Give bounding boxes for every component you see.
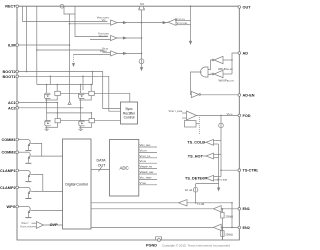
junction (57.4,112.9) [57,112,59,114]
svg-text:AC1: AC1 [8,101,16,105]
svg-text:BOOT2: BOOT2 [3,70,16,74]
pin BOOT2 [16,70,19,73]
ground Q3 [45,127,49,130]
svg-text:TS_COLD: TS_COLD [187,140,205,144]
current source I1 [139,59,144,64]
svg-text:TS_DETECT: TS_DETECT [185,176,208,180]
buffer EN1 [213,206,221,212]
transistor COMM1 [25,140,32,152]
wire comp3 stub [74,54,111,56]
svg-text:ILIM: ILIM [8,43,16,47]
current sense CS1 [60,4,64,8]
svg-text:10 uA: 10 uA [185,188,192,192]
junction (232,60) [231,59,233,61]
wire comp2 stub [90,38,111,40]
transistor Q2 bridge [79,87,95,100]
wire gate chain [141,10,143,59]
junction (232,227.4) [231,227,233,229]
wire comp2 out [117,37,141,39]
wire ILIM to comp3 [37,50,111,52]
svg-text:200kΩ: 200kΩ [225,214,233,218]
resistor FOD fb [185,121,197,128]
pin ILIM [16,44,19,47]
svg-text:DATA: DATA [96,159,106,163]
op-amp FOD [187,111,197,120]
junction (91.4,112.9) [91,112,93,114]
wire sense loop [64,6,75,14]
node arrow [68,102,71,105]
pin PGND [158,239,161,242]
svg-text:FOD: FOD [243,114,251,118]
comparator TS_COLD [206,139,214,145]
wire ILIM [17,44,70,46]
resistor EN2 [221,227,223,230]
pin COMM1 [16,138,19,141]
wire FOD down [220,115,222,123]
wire dig out1 [91,202,232,204]
junction (26.5,71.5) [26,71,28,73]
pin CLAMP2 [16,186,19,189]
wire comm1 gate [32,143,42,156]
comparator TS_DETECT [206,175,214,181]
pin CLAMP1 [16,169,19,172]
svg-text:EN2: EN2 [243,226,250,230]
transistor COMM2 [25,152,32,164]
svg-text:Copyright © 2015, Texas Instru: Copyright © 2015, Texas Instruments Inco… [162,243,230,247]
svg-text:CLAMP1: CLAMP1 [0,169,16,173]
svg-text:COMM2: COMM2 [1,151,15,155]
svg-text:M1: M1 [140,2,144,6]
pin circles [16,5,241,241]
svg-text:CLAMP2: CLAMP2 [0,186,16,190]
pin EN2 [238,226,241,229]
wire bridge top [37,84,93,86]
wire loop to comp2 [75,14,108,37]
junction (80.5,84.5) [80,84,82,86]
pin TS-CTRL [238,169,241,172]
junction (80.5,107.8) [80,107,82,109]
junction (83,76.3) [82,76,84,78]
transistor Q1 bridge [45,87,61,100]
svg-text:OUT: OUT [98,164,106,168]
comparator TS_HOT [206,153,214,159]
pin AD-EN [238,94,241,97]
svg-text:T-LIM: T-LIM [197,202,205,206]
buffer EN2 [213,224,221,230]
svg-text:ADC: ADC [119,165,128,170]
junction (222.4,208.8) [222,208,224,210]
svg-text:OVP: OVP [50,223,58,227]
junction (69.5,45) [69,44,71,46]
and gate U4 [201,67,208,77]
buffer AD-EN [191,91,199,97]
block sync rectifier control [121,102,138,124]
transistor CLAMP1 [25,171,32,183]
wire AD pin [232,53,239,74]
wire rail drop to boot [26,6,28,71]
wire BOOT1 [17,76,121,111]
pin OUT [238,6,241,9]
pin RECT [16,5,19,8]
wire comp1 out [117,22,168,24]
pin AD [238,52,241,55]
junction (141.5,53.4) [141,53,143,55]
junction (221,115.4) [220,115,222,117]
wire AD to gates [223,59,232,61]
svg-text:PGND: PGND [146,243,157,247]
wire BOOT2 [17,72,121,109]
wire clamp2 gate [32,190,62,192]
buffer TLIM [179,200,188,206]
svg-text:Digital Control: Digital Control [65,182,88,186]
resistor EN1 [221,209,223,213]
wire CLAMP2 [17,186,27,188]
svg-text:AD-EN: AD-EN [243,93,255,97]
junction (57.4,102.5) [57,102,59,104]
wire comm2 gate [32,155,62,157]
junction (57.2,84.5) [56,84,58,86]
pin AC2 [16,107,19,110]
junction (91.2,84.5) [90,84,92,86]
op-amp OCP [168,19,176,25]
wire rail drop to comp1 [23,6,108,21]
svg-text:TS_HOT: TS_HOT [188,154,204,158]
junction (190.5,6.2) [190,5,192,7]
junction (195.6,202.8) [195,202,197,204]
svg-text:200kΩ: 200kΩ [225,233,233,237]
wire rail drop to bridge [36,6,38,84]
junction (141.5,22.6) [141,22,143,24]
wire data bus [91,169,110,171]
junction (36.8,50) [36,49,38,51]
wire clamp1 gate [32,174,43,191]
svg-text:OUT: OUT [243,5,252,9]
wire COMM1 [17,139,27,141]
wire wkup net [190,6,192,42]
gate U2 [214,56,223,63]
svg-text:EN1: EN1 [243,207,250,211]
op-amp EA3 [111,51,118,56]
transistor Q4 bridge [79,114,95,127]
wire EN1 [91,208,239,210]
junction (46.5,84.5) [46,84,48,86]
pin EN1 [238,208,241,211]
pin FOD [238,114,241,117]
svg-text:COMM1: COMM1 [1,138,15,142]
block digital control [63,139,92,229]
svg-text:AD: AD [243,51,249,55]
wire EN2 [91,226,239,228]
wire comp3 out [117,52,141,54]
op-amp EA2 [111,35,118,40]
wire FOD [197,114,240,116]
wire CLAMP1 [17,170,27,172]
wire gate lines [61,92,89,94]
pgnd hook [156,237,162,240]
svg-text:BOOT1: BOOT1 [3,75,16,79]
op-amp EA1 [111,20,118,25]
pin WPG [16,205,19,208]
wire gates to and [208,60,212,70]
wire adc taps [139,146,157,148]
current source ITS [219,123,224,128]
junction (222.4,227.4) [222,227,224,229]
svg-text:WPG: WPG [7,205,16,209]
pin AC1 [16,101,19,104]
junction (46.5,102.5) [46,102,48,104]
ground Q4 [79,127,83,130]
block ADC [110,140,139,197]
wire loop to comp1 [69,14,71,101]
wire wpg gate [32,209,62,211]
svg-text:RECT: RECT [5,5,16,9]
junction (141.5,38) [141,37,143,39]
comparator OVP [36,222,43,229]
wire WPG [17,206,27,208]
transistor CLAMP2 [25,187,32,199]
current source 10uA [193,187,198,192]
pin BOOT1 [16,75,19,78]
svg-text:AC2: AC2 [8,106,16,110]
wire TS-CTRL [221,169,239,171]
transistor M1 [138,6,139,9]
transistor Q3 bridge [45,114,61,127]
pin COMM2 [16,151,19,154]
transistor WPG [25,207,32,219]
junction (92.6,71.5) [92,71,94,73]
gate U3 [214,70,223,77]
wire AC2 [17,107,83,109]
junction (50.3,76.3) [50,76,52,78]
wire COMM2 [17,151,27,153]
junction (69.5,23.8) [69,23,71,25]
junction (232,202.8) [231,202,233,204]
wire AC1 [17,102,57,104]
wire AD-EN [201,94,240,96]
junction (221,170.2) [220,169,222,171]
svg-text:TS-CTRL: TS-CTRL [243,169,259,173]
